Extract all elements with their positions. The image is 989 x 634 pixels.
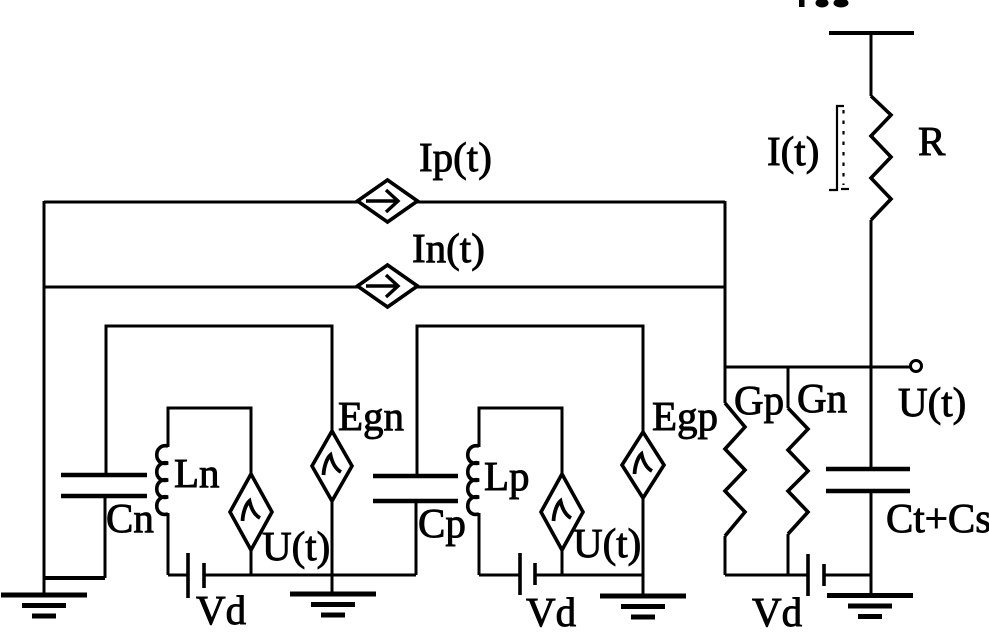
dependent source U(t) (p-side) xyxy=(541,474,583,550)
wire: right bottom rail xyxy=(725,574,808,577)
wire: n-side bottom rail xyxy=(168,574,188,577)
svg-text:Ct+Cs: Ct+Cs xyxy=(886,495,989,541)
capacitor Cn xyxy=(61,473,147,478)
dependent source Egn xyxy=(312,431,352,501)
current source Ip(t) xyxy=(358,180,418,222)
svg-text:Ip(t): Ip(t) xyxy=(419,134,492,180)
svg-text:Vd: Vd xyxy=(526,589,576,634)
inductor Ln xyxy=(157,446,168,515)
svg-text:U(t): U(t) xyxy=(262,523,330,569)
ground (right, under Ct+Cs) xyxy=(827,596,913,617)
dependent source Egp xyxy=(622,432,664,498)
node U(t) open terminal xyxy=(911,361,922,372)
wire: right bus vertical down to U(t) node xyxy=(724,201,727,367)
svg-text:Gp: Gp xyxy=(734,377,784,423)
inductor Lp xyxy=(468,446,479,515)
battery Vd (n-side) xyxy=(186,553,190,598)
battery Vd (right) xyxy=(806,554,810,596)
outer loop box (p-side) xyxy=(417,326,643,476)
current arrow I(t) xyxy=(829,106,849,190)
ground (far left) xyxy=(1,595,87,616)
resistor R xyxy=(871,96,891,220)
svg-text:Egn: Egn xyxy=(338,393,404,439)
svg-text:Gn: Gn xyxy=(797,375,847,421)
node/net: +Vcc label (cut off at top edge) xyxy=(799,0,849,8)
wire: Cn bottom to left bus xyxy=(44,576,105,580)
wire: Ct+Cs bottom to ground xyxy=(870,491,873,595)
capacitor Cp xyxy=(373,474,458,479)
svg-text:Vd: Vd xyxy=(196,587,246,633)
svg-text:Egp: Egp xyxy=(652,393,718,439)
svg-text:In(t): In(t) xyxy=(412,225,485,271)
svg-text:Cp: Cp xyxy=(418,500,466,546)
ground (under Egp) xyxy=(600,596,686,617)
current source In(t) xyxy=(358,265,418,307)
wire: U(t) n-side source to bottom rail xyxy=(250,550,253,575)
wire: Egp to ground xyxy=(642,498,645,596)
resistor Gn xyxy=(787,367,790,408)
wire: Ln bottom to rail xyxy=(167,513,170,575)
svg-text:Lp: Lp xyxy=(484,453,530,499)
wire: U(t) node horizontal xyxy=(725,366,911,369)
inner box (n-side) with inductor Ln xyxy=(168,408,251,474)
wire: Lp bottom to rail xyxy=(478,513,481,575)
wire: Egn to ground xyxy=(331,501,334,594)
dependent source U(t) (n-side) xyxy=(230,474,272,550)
svg-text:Ln: Ln xyxy=(174,450,220,496)
wire: R bottom to Ct+Cs top plate xyxy=(870,220,873,469)
battery Vd (p-side) xyxy=(518,553,522,595)
wire: U(t) p-side source to bottom rail xyxy=(561,550,564,575)
resistor Gp xyxy=(724,367,727,403)
outer loop box (n-side) xyxy=(106,326,332,475)
svg-text:I(t): I(t) xyxy=(767,128,819,174)
wire: In(t) horizontal xyxy=(44,286,725,289)
svg-text:U(t): U(t) xyxy=(898,379,966,425)
svg-text:R: R xyxy=(918,118,946,164)
inner box (p-side) with inductor Lp xyxy=(479,408,562,474)
wire: left bus vertical xyxy=(43,201,46,595)
svg-text:Cn: Cn xyxy=(106,495,154,541)
wire: Cn bottom plate down xyxy=(104,496,107,578)
wire: Cp bottom plate down to rail xyxy=(415,501,418,575)
wire: Vcc supply rail xyxy=(829,31,914,35)
wire: rail down to resistor R xyxy=(870,33,873,96)
ground (under Egn) xyxy=(290,594,376,615)
wire: Ip(t) horizontal xyxy=(44,201,725,204)
svg-text:Vd: Vd xyxy=(752,589,802,634)
svg-text:U(t): U(t) xyxy=(573,520,641,566)
capacitor Ct+Cs xyxy=(826,467,910,472)
wire: p-side bottom rail xyxy=(479,574,520,577)
